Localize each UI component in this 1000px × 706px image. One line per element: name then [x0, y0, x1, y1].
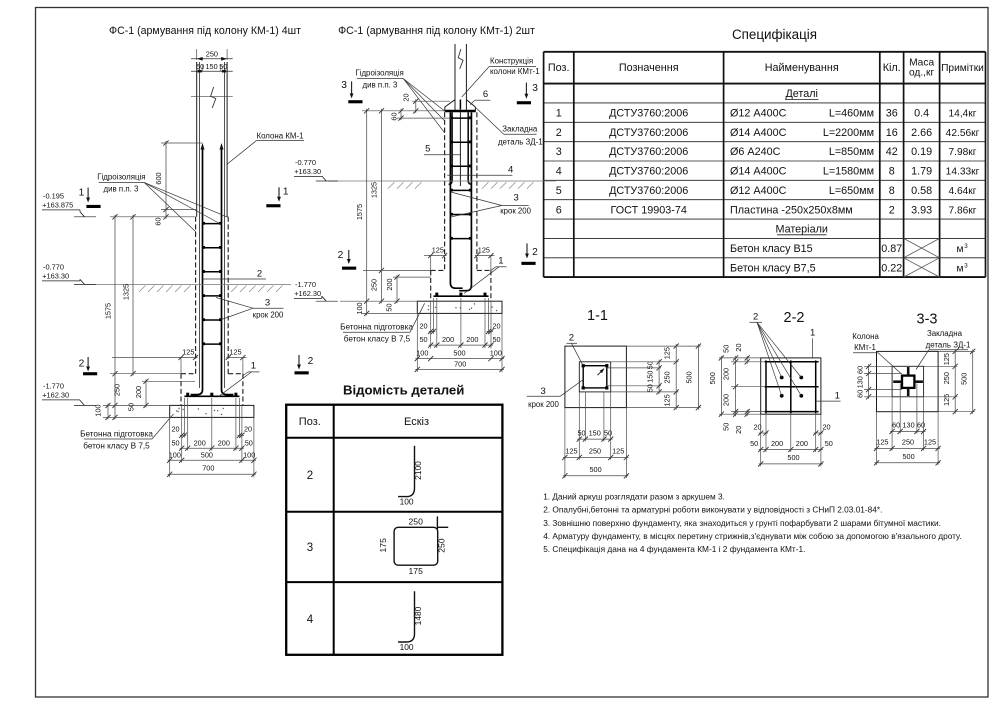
- svg-text:20: 20: [822, 423, 830, 432]
- svg-text:Гідроізоляція: Гідроізоляція: [97, 172, 145, 181]
- svg-text:-1.770: -1.770: [295, 280, 316, 289]
- svg-text:1-1: 1-1: [587, 308, 608, 324]
- svg-text:60: 60: [153, 217, 162, 225]
- svg-text:20: 20: [734, 343, 743, 351]
- svg-text:2: 2: [753, 311, 758, 322]
- svg-text:250: 250: [370, 279, 379, 291]
- svg-text:250: 250: [113, 384, 122, 396]
- svg-text:8: 8: [889, 166, 895, 178]
- svg-text:200: 200: [796, 439, 808, 448]
- svg-text:4. Арматуру фундаменту, в місц: 4. Арматуру фундаменту, в місцях перетин…: [543, 531, 961, 541]
- svg-text:Матеріали: Матеріали: [775, 224, 827, 236]
- svg-text:1: 1: [498, 255, 503, 266]
- svg-text:крок 200: крок 200: [253, 310, 284, 319]
- svg-text:2.66: 2.66: [911, 127, 932, 139]
- svg-text:1.79: 1.79: [911, 166, 932, 178]
- svg-text:0.22: 0.22: [881, 262, 902, 274]
- svg-text:ФС-1 (армування під колону КМ-: ФС-1 (армування під колону КМ-1) 4шт: [109, 25, 301, 37]
- svg-text:125: 125: [942, 394, 951, 406]
- svg-text:50: 50: [646, 384, 655, 392]
- svg-text:Поз.: Поз.: [548, 62, 570, 74]
- svg-text:7.98кг: 7.98кг: [948, 147, 976, 158]
- svg-text:1: 1: [251, 360, 256, 371]
- svg-text:3: 3: [541, 386, 546, 397]
- svg-text:500: 500: [201, 450, 213, 459]
- svg-text:1: 1: [283, 187, 289, 198]
- svg-text:4: 4: [307, 614, 314, 626]
- svg-text:20: 20: [492, 322, 500, 331]
- svg-text:ДСТУ3760:2006: ДСТУ3760:2006: [609, 108, 688, 120]
- svg-text:+162.30: +162.30: [294, 289, 321, 298]
- svg-text:L=460мм: L=460мм: [829, 108, 874, 120]
- svg-text:14,4кг: 14,4кг: [948, 109, 976, 120]
- svg-text:200: 200: [722, 368, 731, 380]
- svg-text:Позначення: Позначення: [619, 62, 679, 74]
- svg-text:Найменування: Найменування: [765, 62, 839, 74]
- svg-text:250: 250: [942, 372, 951, 384]
- svg-text:50: 50: [750, 439, 758, 448]
- svg-text:125: 125: [663, 347, 672, 359]
- svg-text:50: 50: [196, 62, 204, 71]
- svg-text:100: 100: [490, 349, 502, 358]
- svg-text:Ескіз: Ескіз: [404, 416, 429, 428]
- svg-text:700: 700: [454, 360, 466, 369]
- svg-text:1: 1: [79, 188, 85, 199]
- svg-text:500: 500: [959, 373, 968, 385]
- svg-text:125: 125: [612, 447, 624, 456]
- svg-text:0.87: 0.87: [881, 243, 902, 255]
- svg-text:130: 130: [855, 376, 864, 388]
- svg-text:-0.195: -0.195: [43, 192, 64, 201]
- svg-text:2100: 2100: [413, 461, 423, 480]
- svg-text:50: 50: [419, 335, 427, 344]
- svg-text:4: 4: [556, 166, 562, 178]
- svg-text:60: 60: [389, 112, 398, 120]
- svg-text:20: 20: [419, 322, 427, 331]
- svg-text:60: 60: [917, 421, 925, 430]
- svg-text:0.58: 0.58: [911, 185, 932, 197]
- svg-text:3: 3: [307, 542, 313, 554]
- svg-text:Конструкція: Конструкція: [490, 57, 533, 66]
- svg-text:1575: 1575: [103, 303, 112, 319]
- svg-text:150: 150: [589, 428, 601, 437]
- svg-text:250: 250: [663, 371, 672, 383]
- svg-text:L=850мм: L=850мм: [829, 146, 874, 158]
- svg-text:деталь ЗД-1: деталь ЗД-1: [498, 138, 543, 147]
- svg-text:200: 200: [385, 278, 394, 290]
- svg-text:Кіл.: Кіл.: [883, 62, 901, 74]
- svg-text:бетон класу В 7,5: бетон класу В 7,5: [344, 335, 411, 344]
- svg-text:100: 100: [93, 404, 102, 416]
- svg-text:2: 2: [532, 247, 538, 258]
- svg-text:250: 250: [589, 447, 601, 456]
- svg-text:500: 500: [453, 349, 465, 358]
- svg-text:125: 125: [663, 394, 672, 406]
- svg-text:ДСТУ3760:2006: ДСТУ3760:2006: [609, 185, 688, 197]
- svg-text:50: 50: [577, 428, 585, 437]
- svg-text:ГОСТ 19903-74: ГОСТ 19903-74: [611, 204, 687, 216]
- svg-text:2: 2: [79, 359, 85, 370]
- svg-text:100: 100: [243, 450, 255, 459]
- svg-text:200: 200: [194, 438, 206, 447]
- svg-text:500: 500: [903, 452, 915, 461]
- svg-text:м: м: [956, 263, 963, 274]
- svg-text:50: 50: [722, 423, 731, 431]
- svg-text:5: 5: [556, 185, 562, 197]
- svg-text:деталь ЗД-1: деталь ЗД-1: [926, 341, 971, 350]
- svg-text:250: 250: [902, 438, 914, 447]
- svg-text:2: 2: [307, 470, 313, 482]
- svg-text:Бетон класу В7,5: Бетон класу В7,5: [730, 262, 816, 274]
- svg-text:125: 125: [565, 447, 577, 456]
- svg-text:50: 50: [492, 335, 500, 344]
- svg-text:60: 60: [855, 390, 864, 398]
- svg-text:ДСТУ3760:2006: ДСТУ3760:2006: [609, 146, 688, 158]
- svg-text:200: 200: [466, 335, 478, 344]
- svg-text:0.4: 0.4: [914, 108, 929, 120]
- svg-text:60: 60: [892, 421, 900, 430]
- svg-text:2. Опалубні,бетонні та арматур: 2. Опалубні,бетонні та арматурні роботи …: [543, 505, 882, 515]
- svg-text:125: 125: [876, 438, 888, 447]
- svg-text:200: 200: [722, 394, 731, 406]
- svg-text:Примітки: Примітки: [941, 63, 984, 74]
- svg-text:6: 6: [556, 204, 562, 216]
- svg-text:250: 250: [206, 49, 218, 58]
- svg-text:0.19: 0.19: [911, 146, 932, 158]
- svg-text:2: 2: [556, 127, 562, 139]
- svg-text:50: 50: [219, 62, 227, 71]
- svg-text:200: 200: [134, 386, 143, 398]
- svg-text:50: 50: [245, 438, 253, 447]
- svg-text:ДСТУ3760:2006: ДСТУ3760:2006: [609, 127, 688, 139]
- svg-text:Колона: Колона: [852, 332, 879, 341]
- svg-text:175: 175: [409, 566, 424, 576]
- svg-text:50: 50: [385, 303, 394, 311]
- svg-text:див п.п. 3: див п.п. 3: [363, 81, 399, 90]
- svg-text:100: 100: [169, 450, 181, 459]
- svg-text:125: 125: [229, 348, 241, 357]
- svg-text:-0.770: -0.770: [295, 158, 316, 167]
- svg-text:3: 3: [964, 262, 968, 269]
- svg-text:Специфікація: Специфікація: [732, 27, 817, 42]
- svg-text:500: 500: [787, 453, 799, 462]
- svg-text:Ø6 А240С: Ø6 А240С: [730, 146, 781, 158]
- svg-text:КМт-1: КМт-1: [854, 343, 876, 352]
- svg-text:3: 3: [532, 83, 538, 94]
- svg-text:1: 1: [556, 108, 562, 120]
- svg-text:Закладна: Закладна: [927, 329, 963, 338]
- svg-text:Бетон класу В15: Бетон класу В15: [730, 243, 813, 255]
- svg-text:14.33кг: 14.33кг: [946, 167, 980, 178]
- svg-text:500: 500: [685, 371, 694, 383]
- svg-text:600: 600: [154, 172, 163, 184]
- svg-text:1480: 1480: [413, 606, 423, 625]
- svg-text:1: 1: [835, 390, 840, 401]
- svg-text:3-3: 3-3: [917, 312, 938, 328]
- svg-text:20: 20: [171, 425, 179, 434]
- svg-text:7.86кг: 7.86кг: [948, 205, 976, 216]
- svg-text:3: 3: [964, 243, 968, 250]
- svg-text:4: 4: [508, 165, 513, 176]
- svg-text:42: 42: [886, 146, 898, 158]
- svg-text:+162.30: +162.30: [42, 391, 69, 400]
- svg-text:2: 2: [308, 356, 314, 367]
- svg-text:1325: 1325: [121, 284, 130, 300]
- svg-text:200: 200: [771, 439, 783, 448]
- svg-text:250: 250: [409, 517, 424, 527]
- svg-text:150: 150: [206, 62, 218, 71]
- svg-text:L=1580мм: L=1580мм: [823, 166, 874, 178]
- svg-text:од.,кг: од.,кг: [909, 68, 935, 79]
- svg-text:5: 5: [425, 144, 430, 155]
- svg-text:125: 125: [924, 438, 936, 447]
- svg-text:Ø14 А400С: Ø14 А400С: [730, 166, 787, 178]
- svg-text:125: 125: [942, 353, 951, 365]
- svg-text:+163.30: +163.30: [42, 272, 69, 281]
- svg-text:20: 20: [401, 93, 410, 101]
- svg-text:175: 175: [378, 538, 388, 553]
- svg-text:3: 3: [265, 298, 270, 309]
- svg-text:6: 6: [483, 89, 488, 100]
- svg-text:42.56кг: 42.56кг: [946, 128, 980, 139]
- svg-text:Гідроізоляція: Гідроізоляція: [355, 68, 403, 77]
- svg-text:Відомість деталей: Відомість деталей: [343, 383, 464, 398]
- svg-text:250: 250: [436, 538, 446, 553]
- svg-text:-0.770: -0.770: [43, 263, 64, 272]
- svg-text:100: 100: [400, 642, 414, 652]
- svg-text:L=2200мм: L=2200мм: [823, 127, 874, 139]
- svg-text:ДСТУ3760:2006: ДСТУ3760:2006: [609, 166, 688, 178]
- svg-text:100: 100: [355, 302, 364, 314]
- svg-text:125: 125: [478, 246, 490, 255]
- svg-text:Поз.: Поз.: [299, 416, 321, 428]
- svg-text:бетон класу В 7,5: бетон класу В 7,5: [83, 441, 150, 450]
- svg-text:див п.п. 3: див п.п. 3: [104, 184, 140, 193]
- svg-text:5. Специфікація дана на 4 фунд: 5. Специфікація дана на 4 фундамента КМ-…: [543, 544, 805, 554]
- svg-text:Ø12 А400С: Ø12 А400С: [730, 185, 787, 197]
- svg-text:Колона КМ-1: Колона КМ-1: [256, 131, 303, 140]
- svg-text:-1.770: -1.770: [43, 382, 64, 391]
- svg-text:50: 50: [127, 403, 136, 411]
- svg-text:крок 200: крок 200: [528, 400, 559, 409]
- svg-text:Закладна: Закладна: [502, 125, 538, 134]
- svg-text:3.93: 3.93: [911, 204, 932, 216]
- svg-text:+163.875: +163.875: [42, 201, 73, 210]
- svg-text:20: 20: [753, 423, 761, 432]
- svg-text:2: 2: [569, 332, 574, 343]
- svg-text:3: 3: [341, 80, 347, 91]
- svg-text:Ø14 А400С: Ø14 А400С: [730, 127, 787, 139]
- svg-text:3: 3: [514, 193, 519, 204]
- svg-text:50: 50: [825, 439, 833, 448]
- svg-text:700: 700: [202, 463, 214, 472]
- svg-text:Пластина -250х250х8мм: Пластина -250х250х8мм: [730, 204, 853, 216]
- svg-text:колони КМт-1: колони КМт-1: [490, 67, 540, 76]
- svg-text:Бетонна підготовка: Бетонна підготовка: [340, 323, 413, 332]
- svg-text:2-2: 2-2: [784, 310, 805, 326]
- svg-text:3: 3: [556, 146, 562, 158]
- svg-text:Бетонна підготовка: Бетонна підготовка: [80, 429, 153, 438]
- svg-text:36: 36: [886, 108, 898, 120]
- svg-text:20: 20: [734, 426, 743, 434]
- svg-text:500: 500: [708, 372, 717, 384]
- svg-text:L=650мм: L=650мм: [829, 185, 874, 197]
- svg-text:100: 100: [416, 349, 428, 358]
- svg-text:130: 130: [903, 421, 915, 430]
- svg-text:200: 200: [218, 438, 230, 447]
- svg-text:+163.30: +163.30: [294, 167, 321, 176]
- svg-text:3. Зовнішню поверхню фундамент: 3. Зовнішню поверхню фундаменту, яка зна…: [543, 518, 941, 528]
- svg-text:ФС-1 (армування під колону КМт: ФС-1 (армування під колону КМт-1) 2шт: [338, 25, 535, 37]
- svg-text:60: 60: [855, 366, 864, 374]
- svg-text:крок 200: крок 200: [500, 207, 531, 216]
- svg-text:150: 150: [646, 371, 655, 383]
- svg-text:1. Даний аркуш розглядати разо: 1. Даний аркуш розглядати разом з аркуше…: [543, 492, 725, 502]
- svg-text:2: 2: [338, 250, 344, 261]
- svg-text:500: 500: [590, 465, 602, 474]
- svg-text:Ø12 А400С: Ø12 А400С: [730, 108, 787, 120]
- svg-text:50: 50: [604, 428, 612, 437]
- svg-text:2: 2: [889, 204, 895, 216]
- svg-text:100: 100: [400, 496, 414, 506]
- svg-text:Деталі: Деталі: [785, 88, 818, 100]
- svg-text:1575: 1575: [355, 204, 364, 220]
- svg-text:2: 2: [257, 268, 262, 279]
- svg-text:20: 20: [244, 425, 252, 434]
- svg-text:1: 1: [810, 327, 815, 338]
- svg-text:4.64кг: 4.64кг: [948, 186, 976, 197]
- svg-text:125: 125: [182, 348, 194, 357]
- svg-text:м: м: [956, 244, 963, 255]
- svg-text:16: 16: [886, 127, 898, 139]
- svg-text:50: 50: [171, 438, 179, 447]
- svg-text:200: 200: [442, 335, 454, 344]
- svg-text:50: 50: [722, 345, 731, 353]
- svg-text:125: 125: [432, 246, 444, 255]
- svg-text:8: 8: [889, 185, 895, 197]
- svg-text:1325: 1325: [370, 182, 379, 198]
